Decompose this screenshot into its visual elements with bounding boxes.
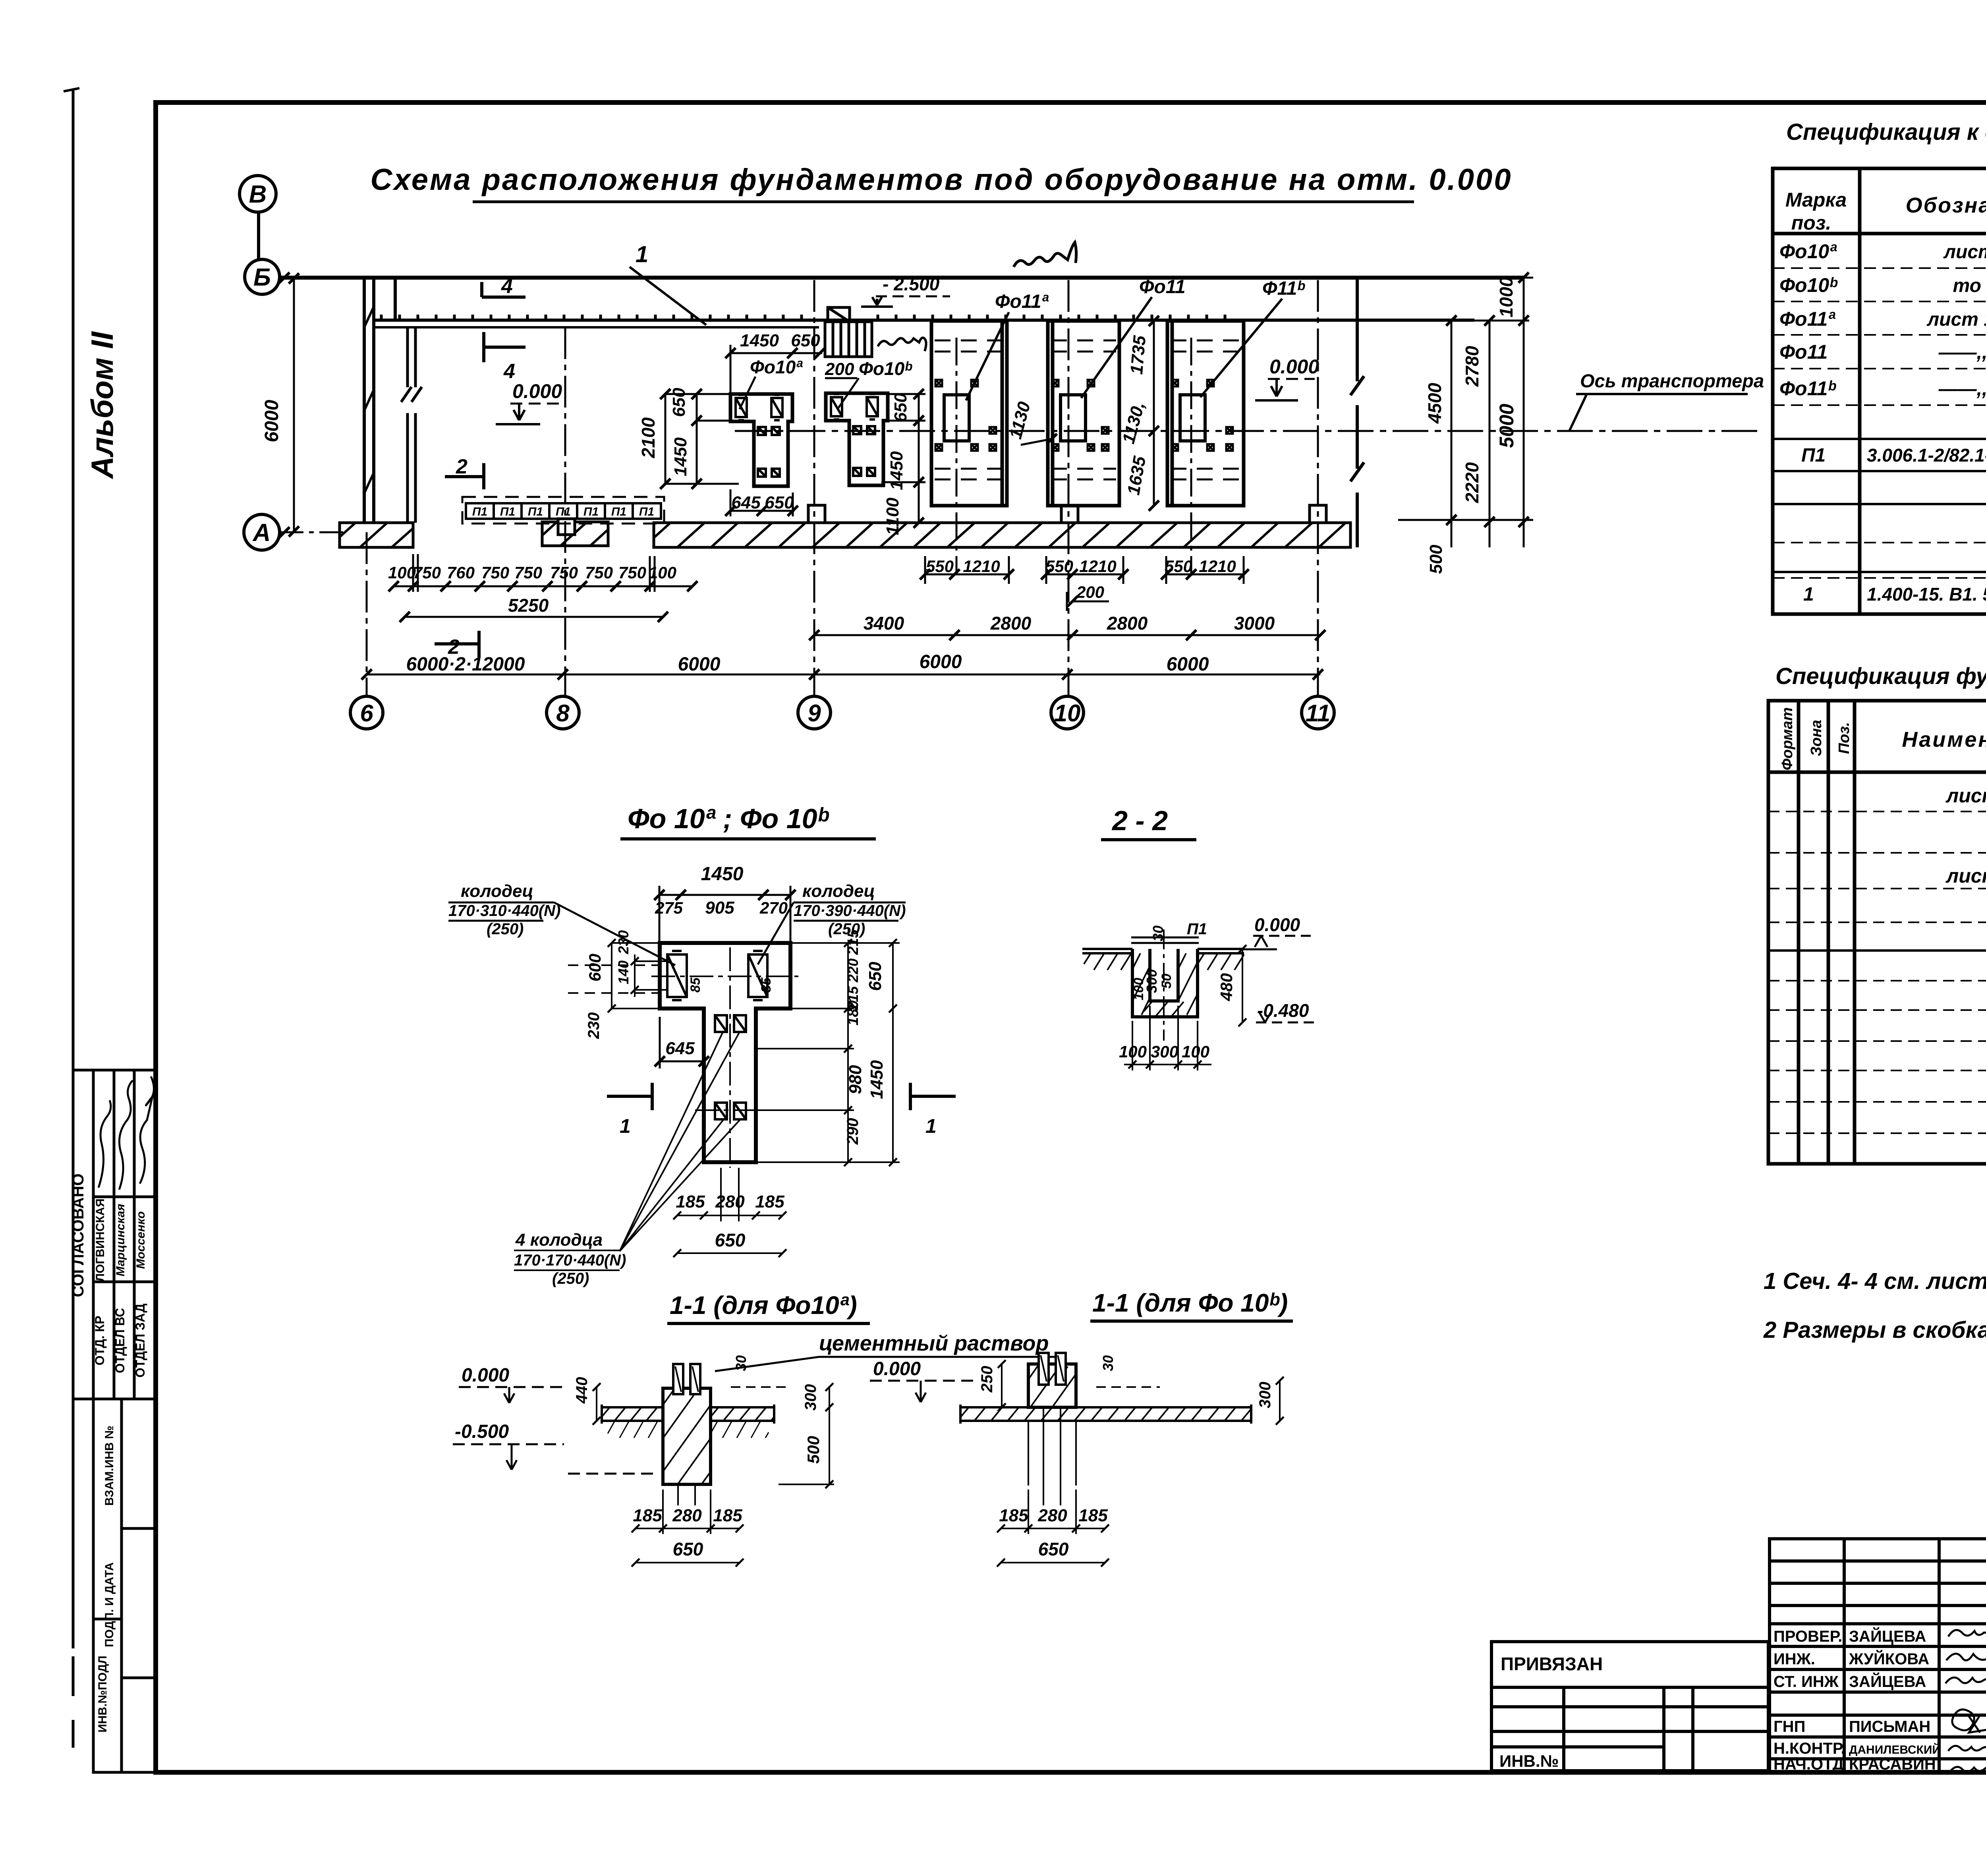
- svg-text:270: 270: [759, 898, 788, 917]
- svg-text:ОТДЕЛ ВС: ОТДЕЛ ВС: [113, 1308, 127, 1373]
- svg-text:ДАНИЛЕВСКИЙ: ДАНИЛЕВСКИЙ: [1849, 1743, 1941, 1756]
- signatures scribbles: [1945, 1630, 1986, 1772]
- svg-text:Фо10ᵇ: Фо10ᵇ: [859, 358, 912, 379]
- svg-text:Поз.: Поз.: [1836, 722, 1853, 754]
- svg-text:ИНВ.№ПОДЛ: ИНВ.№ПОДЛ: [96, 1656, 109, 1733]
- svg-text:(250): (250): [552, 1270, 589, 1287]
- svg-text:500: 500: [804, 1436, 823, 1464]
- svg-text:275: 275: [655, 898, 683, 917]
- svg-text:11: 11: [1306, 700, 1330, 726]
- svg-text:650: 650: [669, 388, 689, 417]
- svg-text:Фо11: Фо11: [1139, 276, 1186, 298]
- left wall: [364, 278, 395, 523]
- foundation Фо10а plan: [730, 394, 792, 486]
- svg-text:Фо10ª: Фо10ª: [1779, 240, 1837, 263]
- svg-text:1450: 1450: [701, 864, 744, 885]
- svg-text:650: 650: [765, 493, 794, 512]
- svg-text:2780: 2780: [1462, 346, 1482, 387]
- svg-text:Фо11ᵇ: Фо11ᵇ: [1779, 377, 1836, 400]
- 1-1a soil hatch: [608, 1421, 663, 1438]
- svg-text:1-1 (для Фо 10ᵇ): 1-1 (для Фо 10ᵇ): [1092, 1289, 1288, 1317]
- svg-text:лист 11: лист 11: [1945, 784, 1986, 807]
- svg-text:2 - 2: 2 - 2: [1111, 805, 1168, 836]
- svg-text:П1: П1: [1187, 920, 1207, 938]
- svg-text:1: 1: [636, 242, 648, 267]
- 1-1a anchor bolts: [673, 1364, 700, 1394]
- handwritten note top: [1014, 242, 1076, 267]
- svg-text:905: 905: [705, 898, 734, 918]
- svg-text:185: 185: [999, 1506, 1028, 1525]
- svg-text:СОГЛАСОВАНО: СОГЛАСОВАНО: [70, 1173, 87, 1297]
- foundation Фо11б plan: [1167, 321, 1244, 506]
- svg-text:200: 200: [825, 359, 854, 379]
- svg-text:2100: 2100: [638, 417, 659, 458]
- section marks 1-1 on detail: [607, 1083, 652, 1110]
- svg-text:170·310·440(N): 170·310·440(N): [448, 902, 560, 920]
- svg-text:1: 1: [925, 1115, 937, 1137]
- svg-text:650: 650: [673, 1539, 703, 1559]
- svg-text:230: 230: [585, 1012, 603, 1039]
- svg-text:760: 760: [447, 563, 475, 582]
- svg-text:185: 185: [1078, 1506, 1108, 1525]
- svg-text:Спецификация фундаментов под о: Спецификация фундаментов под оборудовани…: [1775, 663, 1986, 689]
- svg-text:5000: 5000: [1495, 404, 1518, 448]
- left margin line: [72, 89, 75, 1748]
- svg-text:100: 100: [388, 563, 416, 582]
- svg-text:280: 280: [715, 1192, 745, 1211]
- svg-text:8: 8: [556, 700, 570, 726]
- svg-text:ЖУЙКОВА: ЖУЙКОВА: [1849, 1650, 1929, 1668]
- svg-text:П1: П1: [1801, 445, 1826, 466]
- svg-text:-0.500: -0.500: [455, 1421, 509, 1442]
- svg-text:500: 500: [1426, 545, 1446, 574]
- svg-text:ЗАЙЦЕВА: ЗАЙЦЕВА: [1849, 1672, 1926, 1691]
- svg-text:30: 30: [1100, 1355, 1116, 1371]
- svg-text:- 2.500: - 2.500: [883, 274, 940, 294]
- svg-text:ПОДП. И ДАТА: ПОДП. И ДАТА: [103, 1562, 116, 1647]
- 1-1a foundation column: [663, 1388, 711, 1484]
- svg-text:1 Сеч. 4- 4 см. лист 4.: 1 Сеч. 4- 4 см. лист 4.: [1764, 1268, 1986, 1294]
- svg-text:250: 250: [978, 1366, 996, 1393]
- 2-2 centerline: [1163, 929, 1165, 1041]
- svg-text:300: 300: [1151, 1042, 1178, 1061]
- svg-text:50: 50: [1159, 974, 1174, 989]
- 1-1b block: [1028, 1364, 1076, 1407]
- svg-text:ПИСЬМАН: ПИСЬМАН: [1849, 1718, 1930, 1735]
- svg-text:750: 750: [585, 563, 613, 582]
- svg-text:П1: П1: [639, 505, 654, 518]
- svg-text:3.006.1-2/82.1-2-1.0· 000: 3.006.1-2/82.1-2-1.0· 000: [1867, 445, 1986, 466]
- channel band line with embed ticks: [374, 319, 1474, 322]
- section mark 2 upper: [445, 463, 484, 489]
- svg-text:185: 185: [676, 1192, 705, 1211]
- axis line 11: [1317, 280, 1319, 697]
- plates row П1 dashed outline: [462, 497, 664, 524]
- svg-text:200: 200: [1076, 583, 1104, 601]
- svg-text:П1: П1: [472, 505, 487, 518]
- section mark 4 upper: [482, 282, 525, 297]
- axis circle 9: [798, 696, 831, 729]
- svg-text:Формат: Формат: [1779, 707, 1796, 771]
- svg-text:3000: 3000: [1234, 613, 1275, 634]
- svg-text:КРАСАВИН: КРАСАВИН: [1849, 1756, 1936, 1773]
- svg-text:П1: П1: [611, 505, 626, 518]
- svg-text:3400: 3400: [864, 613, 904, 634]
- channel band lower line: [374, 326, 819, 328]
- svg-text:П1: П1: [500, 505, 515, 518]
- svg-text:10: 10: [1054, 700, 1081, 726]
- foundation Фо10б plan: [826, 393, 888, 485]
- axis circle Б: [245, 259, 280, 294]
- svg-text:650: 650: [865, 962, 885, 991]
- svg-text:750: 750: [514, 563, 542, 582]
- svg-text:600: 600: [585, 954, 604, 981]
- svg-text:Ф11ᵇ: Ф11ᵇ: [1262, 278, 1305, 299]
- svg-text:170·170·440(N): 170·170·440(N): [514, 1252, 626, 1269]
- svg-text:ГНП: ГНП: [1773, 1718, 1805, 1735]
- svg-text:СТ. ИНЖ: СТ. ИНЖ: [1773, 1673, 1839, 1691]
- svg-text:Фо10ª: Фо10ª: [750, 357, 803, 377]
- svg-text:Фо11ª: Фо11ª: [995, 291, 1049, 312]
- svg-text:1210: 1210: [1199, 557, 1236, 576]
- svg-text:ИНВ.№: ИНВ.№: [1499, 1752, 1559, 1770]
- axis line A horizontal: [280, 531, 344, 533]
- svg-text:П1: П1: [556, 505, 571, 518]
- svg-text:185: 185: [713, 1506, 742, 1525]
- bound stamp block: [1491, 1642, 1768, 1771]
- svg-text:1735: 1735: [1127, 334, 1149, 375]
- section 2-2 ground line: [1082, 949, 1244, 953]
- column bump: [808, 505, 825, 523]
- svg-text:поз.: поз.: [1791, 212, 1831, 234]
- svg-text:6000: 6000: [920, 651, 962, 672]
- svg-text:6000: 6000: [678, 654, 721, 675]
- svg-text:185: 185: [633, 1506, 662, 1525]
- detail T outline: [660, 943, 790, 1162]
- svg-text:ПРИВЯЗАН: ПРИВЯЗАН: [1501, 1654, 1603, 1674]
- svg-text:2220: 2220: [1462, 462, 1482, 503]
- svg-text:85: 85: [688, 977, 703, 993]
- svg-text:0.000: 0.000: [462, 1365, 509, 1386]
- axis circle 11: [1302, 696, 1334, 729]
- svg-text:4 колодца: 4 колодца: [515, 1230, 603, 1250]
- axis line 6: [366, 532, 368, 697]
- svg-text:0.000: 0.000: [873, 1358, 921, 1379]
- svg-text:лист 13, 14: лист 13, 14: [1926, 309, 1986, 330]
- section 2-2 slab on top: [1131, 937, 1199, 943]
- svg-text:2 Размеры в скобках даны для: 2 Размеры в скобках даны для фундамента …: [1763, 1317, 1986, 1343]
- section mark 4 lower: [484, 332, 525, 362]
- svg-text:1100: 1100: [883, 497, 902, 535]
- svg-text:Б: Б: [253, 264, 271, 291]
- svg-text:5250: 5250: [508, 595, 549, 616]
- axis circle 10: [1051, 696, 1084, 729]
- svg-text:100: 100: [1182, 1042, 1209, 1061]
- svg-text:Альбом II: Альбом II: [85, 331, 120, 479]
- foundation centerline Фо11б: [1190, 338, 1192, 576]
- expansion joint wall: [401, 327, 422, 523]
- svg-text:280: 280: [672, 1506, 702, 1525]
- 1-1b floor slab: [960, 1405, 1251, 1424]
- svg-text:(250): (250): [487, 920, 524, 938]
- 1-1b bolt axis lines: [1028, 1407, 1076, 1505]
- svg-text:1000: 1000: [1496, 276, 1517, 317]
- svg-text:Марцинская: Марцинская: [114, 1204, 127, 1276]
- svg-text:645: 645: [665, 1039, 695, 1058]
- svg-text:6000·2·12000: 6000·2·12000: [406, 654, 525, 675]
- svg-text:750: 750: [618, 563, 646, 582]
- svg-text:0.000: 0.000: [1269, 355, 1319, 378]
- svg-text:650: 650: [791, 331, 820, 350]
- svg-text:480: 480: [1217, 973, 1236, 1001]
- svg-text:2800: 2800: [1107, 613, 1148, 634]
- stairs: [825, 307, 872, 357]
- title block left stamp grid: [1770, 1539, 1986, 1772]
- svg-text:1-1 (для Фо10ª): 1-1 (для Фо10ª): [670, 1291, 857, 1320]
- axis circle В: [240, 176, 276, 212]
- 1-1b anchor bolts: [1039, 1353, 1066, 1385]
- svg-text:750: 750: [550, 563, 578, 582]
- svg-text:колодец: колодец: [802, 881, 875, 901]
- column pad axis 8: [542, 522, 608, 546]
- floor strip main segment: [654, 523, 1350, 547]
- svg-text:Обозначение: Обозначение: [1906, 193, 1986, 217]
- svg-text:1450: 1450: [740, 331, 779, 350]
- svg-text:-0.480: -0.480: [1257, 1000, 1309, 1021]
- detail centerlines: [651, 976, 798, 977]
- svg-text:П1: П1: [528, 505, 543, 518]
- right dimension chain lines: [1366, 278, 1533, 547]
- svg-text:ИНЖ.: ИНЖ.: [1773, 1650, 1815, 1668]
- svg-text:650: 650: [715, 1230, 746, 1250]
- svg-text:НАЧ.ОТД: НАЧ.ОТД: [1773, 1756, 1844, 1773]
- svg-text:2: 2: [456, 455, 468, 478]
- svg-text:6000: 6000: [1167, 654, 1209, 675]
- svg-text:ЛОГВИНСКАЯ: ЛОГВИНСКАЯ: [94, 1198, 107, 1282]
- dashed refs left: [568, 965, 659, 993]
- approval signatures: [99, 1076, 154, 1190]
- svg-text:4: 4: [501, 275, 513, 298]
- axis circle 8: [547, 696, 579, 729]
- svg-text:то же: то же: [1953, 275, 1986, 296]
- svg-text:ОТДЕЛ ЗАД: ОТДЕЛ ЗАД: [133, 1304, 147, 1378]
- svg-text:Спецификация к схеме расположе: Спецификация к схеме расположения фундам…: [1786, 119, 1986, 145]
- svg-text:750: 750: [481, 563, 509, 582]
- svg-text:650: 650: [891, 393, 910, 422]
- svg-text:П1: П1: [583, 505, 599, 518]
- svg-text:1.400-15. В1. 540- 09: 1.400-15. В1. 540- 09: [1867, 584, 1986, 605]
- foundation Фо11 plan: [1048, 321, 1119, 506]
- svg-text:0.000: 0.000: [512, 380, 562, 402]
- svg-text:440: 440: [573, 1377, 591, 1404]
- svg-text:1450: 1450: [887, 451, 906, 490]
- inventory stamp column: [93, 1399, 155, 1772]
- svg-text:ЗАЙЦЕВА: ЗАЙЦЕВА: [1849, 1627, 1926, 1645]
- column bump: [1310, 505, 1326, 523]
- svg-text:А: А: [252, 519, 271, 547]
- svg-text:——,,——: ——,,——: [1938, 342, 1986, 363]
- table 2 row lines: [1768, 811, 1986, 1133]
- foundation Фо11а plan: [931, 321, 1007, 506]
- svg-text:645: 645: [731, 493, 761, 512]
- floor strip left segment: [340, 523, 413, 547]
- svg-text:ОТД. КР: ОТД. КР: [93, 1316, 107, 1365]
- svg-text:——,,——: ——,,——: [1938, 379, 1986, 400]
- svg-text:6000: 6000: [261, 400, 282, 442]
- svg-text:1210: 1210: [963, 557, 1000, 576]
- svg-text:140: 140: [615, 960, 632, 984]
- foundation centerline Фо11а: [956, 338, 958, 574]
- svg-text:1210: 1210: [1079, 557, 1116, 576]
- section 2-2 soil hatch: [1084, 953, 1131, 970]
- 1-1a floor slab: [602, 1405, 774, 1424]
- svg-text:1: 1: [620, 1115, 631, 1137]
- svg-text:Ось транспортера: Ось транспортера: [1580, 370, 1764, 391]
- axis line 9: [813, 280, 815, 697]
- svg-text:4: 4: [503, 360, 515, 383]
- section mark 2 lower: [435, 631, 479, 657]
- svg-text:1: 1: [1803, 584, 1814, 605]
- axis line 8: [564, 327, 566, 697]
- svg-text:185: 185: [755, 1192, 784, 1211]
- svg-text:1450: 1450: [671, 437, 690, 476]
- svg-text:Схема расположения фундаментов: Схема расположения фундаментов под обору…: [370, 163, 1512, 197]
- svg-text:550: 550: [926, 557, 954, 576]
- svg-text:ВЗАМ.ИНВ №: ВЗАМ.ИНВ №: [103, 1426, 116, 1506]
- svg-text:Н.КОНТР.: Н.КОНТР.: [1773, 1740, 1845, 1757]
- section 2-2 pit walls: [1132, 949, 1198, 1017]
- svg-text:300: 300: [1256, 1382, 1274, 1408]
- column bump: [1061, 505, 1078, 523]
- table 1 grid: [1773, 168, 1986, 614]
- link line B to Б: [257, 213, 260, 259]
- svg-text:Наименование: Наименование: [1902, 728, 1986, 752]
- right wall: [1350, 278, 1364, 547]
- svg-text:280: 280: [1037, 1506, 1067, 1525]
- svg-text:9: 9: [808, 700, 821, 726]
- axis circle А: [244, 514, 280, 550]
- axis line 10: [1068, 280, 1070, 697]
- svg-text:85: 85: [759, 977, 774, 993]
- svg-text:6: 6: [360, 700, 373, 726]
- plates row П1 cells: [466, 503, 661, 519]
- svg-text:лист 11: лист 11: [1945, 865, 1986, 887]
- svg-text:Зона: Зона: [1808, 720, 1825, 756]
- svg-text:Марка: Марка: [1785, 189, 1847, 211]
- 1-1a bolt axis lines: [678, 1484, 695, 1505]
- wall axis line Б: [279, 272, 290, 537]
- handwritten note lower: [878, 338, 926, 351]
- svg-text:ПРОВЕР.: ПРОВЕР.: [1773, 1628, 1842, 1645]
- svg-text:Фо 10ª ; Фо 10ᵇ: Фо 10ª ; Фо 10ᵇ: [628, 803, 829, 834]
- axis circle 6: [350, 696, 383, 729]
- approval stamp block: [73, 1070, 155, 1399]
- svg-text:Моссенко: Моссенко: [134, 1211, 147, 1269]
- detail wells in bar: [667, 951, 767, 1119]
- svg-text:В: В: [249, 181, 267, 208]
- svg-text:4500: 4500: [1424, 383, 1445, 424]
- conveyor centerline: [735, 430, 1764, 432]
- svg-text:170·390·440(N): 170·390·440(N): [794, 902, 906, 920]
- table 2 grid: [1768, 701, 1986, 1164]
- svg-text:Фо11: Фо11: [1779, 341, 1828, 363]
- svg-text:Фо10ᵇ: Фо10ᵇ: [1779, 274, 1838, 296]
- svg-text:100: 100: [1131, 978, 1146, 1001]
- svg-text:лист 11: лист 11: [1943, 242, 1986, 263]
- svg-text:650: 650: [1038, 1539, 1069, 1559]
- svg-text:Фо11ª: Фо11ª: [1779, 308, 1835, 330]
- svg-text:цементный раствор: цементный раствор: [819, 1331, 1049, 1355]
- svg-text:колодец: колодец: [461, 881, 533, 901]
- svg-text:300: 300: [802, 1384, 819, 1411]
- svg-text:1450: 1450: [867, 1060, 887, 1099]
- svg-text:30: 30: [733, 1355, 749, 1371]
- table 1 row lines: [1773, 268, 1986, 578]
- svg-text:100: 100: [649, 563, 676, 582]
- svg-text:290: 290: [844, 1118, 862, 1145]
- svg-text:0.000: 0.000: [1254, 914, 1300, 935]
- svg-text:2800: 2800: [990, 613, 1032, 634]
